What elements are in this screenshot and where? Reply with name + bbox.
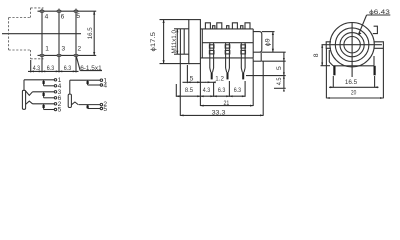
svg-text:5: 5 bbox=[58, 107, 62, 114]
svg-text:5: 5 bbox=[190, 75, 194, 82]
svg-text:2: 2 bbox=[78, 46, 82, 53]
svg-text:5: 5 bbox=[276, 66, 283, 70]
svg-text:5: 5 bbox=[76, 13, 80, 20]
svg-text:6.3: 6.3 bbox=[64, 65, 72, 72]
svg-text:4: 4 bbox=[45, 13, 49, 20]
svg-text:1.2: 1.2 bbox=[215, 76, 224, 83]
svg-text:33.3: 33.3 bbox=[212, 109, 226, 116]
svg-text:3: 3 bbox=[62, 46, 66, 53]
svg-text:21: 21 bbox=[224, 100, 230, 107]
svg-text:4: 4 bbox=[103, 82, 107, 89]
svg-text:6.3: 6.3 bbox=[234, 87, 242, 94]
svg-text:ϕ17.5: ϕ17.5 bbox=[150, 32, 157, 52]
svg-text:8.5: 8.5 bbox=[185, 87, 193, 94]
svg-text:M11x1.0: M11x1.0 bbox=[171, 30, 178, 54]
svg-text:8: 8 bbox=[313, 53, 320, 57]
svg-text:5: 5 bbox=[103, 106, 107, 113]
svg-text:6.3: 6.3 bbox=[218, 87, 226, 94]
svg-text:6-1.5x1: 6-1.5x1 bbox=[80, 65, 102, 72]
svg-text:6.3: 6.3 bbox=[47, 65, 55, 72]
svg-text:4.5: 4.5 bbox=[276, 77, 283, 85]
svg-text:16.5: 16.5 bbox=[345, 79, 357, 86]
svg-text:20: 20 bbox=[351, 89, 357, 96]
svg-text:6: 6 bbox=[61, 13, 65, 20]
svg-text:4.3: 4.3 bbox=[33, 65, 41, 72]
svg-text:ϕ6.43: ϕ6.43 bbox=[369, 9, 390, 16]
svg-text:16.5: 16.5 bbox=[87, 27, 94, 39]
svg-text:4.3: 4.3 bbox=[203, 87, 211, 94]
svg-text:1: 1 bbox=[45, 46, 49, 53]
svg-text:ϕ9: ϕ9 bbox=[265, 38, 272, 46]
